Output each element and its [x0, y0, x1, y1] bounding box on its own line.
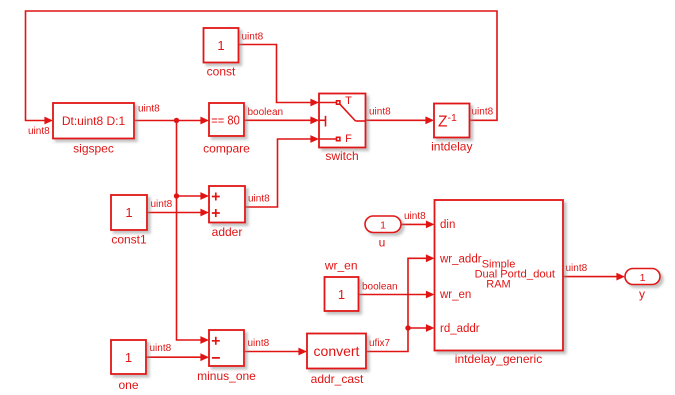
- svg-text:sigspec: sigspec: [73, 142, 114, 156]
- wire sigspec->compare: [134, 117, 209, 125]
- wire u->RAM din: [401, 221, 435, 229]
- wire switch->intdelay: [366, 116, 435, 124]
- node junction on sigspec output: [174, 118, 179, 123]
- block compare: [203, 103, 250, 156]
- svg-text:adder: adder: [212, 225, 243, 239]
- svg-text:wr_en: wr_en: [439, 289, 471, 301]
- svg-text:din: din: [440, 219, 455, 231]
- wire one->minus_one: [146, 353, 209, 361]
- wire feedback loop intdelay->sigspec: [26, 11, 498, 124]
- node junction rd_addr: [405, 325, 410, 330]
- wire adder->switch F input: [245, 135, 319, 207]
- svg-text:rd_addr: rd_addr: [440, 323, 480, 335]
- block minus_one: [197, 330, 256, 383]
- svg-text:convert: convert: [314, 343, 360, 359]
- svg-text:uint8: uint8: [404, 211, 426, 222]
- svg-text:wr_en: wr_en: [324, 259, 358, 273]
- svg-text:uint8: uint8: [566, 263, 588, 274]
- wire const->switch T input: [239, 45, 320, 107]
- svg-text:uint8: uint8: [369, 107, 391, 118]
- svg-text:uint8: uint8: [248, 338, 270, 349]
- svg-text:RAM: RAM: [486, 279, 510, 291]
- block intdelay_generic RAM: [435, 200, 564, 366]
- svg-text:d_dout: d_dout: [521, 269, 556, 281]
- block switch: [319, 94, 366, 164]
- svg-text:const: const: [207, 65, 236, 79]
- block sigspec: [53, 103, 134, 156]
- svg-text:wr_addr: wr_addr: [439, 253, 482, 265]
- svg-text:ufix7: ufix7: [369, 338, 391, 349]
- wire branch to adder input1: [177, 192, 210, 200]
- wire RAM->y: [563, 273, 625, 281]
- svg-text:boolean: boolean: [362, 282, 398, 293]
- svg-text:1: 1: [338, 287, 345, 302]
- svg-text:uint8: uint8: [138, 104, 160, 115]
- svg-text:intdelay: intdelay: [431, 140, 472, 154]
- inport u: [365, 216, 401, 250]
- svg-text:1: 1: [217, 38, 224, 53]
- block addr_cast convert: [307, 334, 366, 387]
- block const1: [111, 195, 147, 247]
- wire wr_en const->RAM wr_en: [359, 291, 435, 299]
- svg-text:1: 1: [125, 350, 132, 365]
- block intdelay: [431, 104, 472, 154]
- svg-text:== 80: == 80: [211, 113, 240, 127]
- node junction to adder: [174, 193, 179, 198]
- wire minus_one->convert: [244, 348, 307, 356]
- svg-text:uint8: uint8: [150, 343, 172, 354]
- svg-text:y: y: [639, 287, 645, 301]
- block const: [204, 28, 239, 79]
- svg-text:boolean: boolean: [248, 107, 284, 118]
- block wr_en constant: [324, 259, 359, 311]
- svg-text:1: 1: [125, 205, 132, 220]
- svg-text:switch: switch: [325, 149, 358, 163]
- svg-text:T: T: [345, 95, 352, 107]
- svg-text:Dt:uint8 D:1: Dt:uint8 D:1: [62, 114, 126, 128]
- block one: [111, 340, 146, 392]
- svg-text:uint8: uint8: [151, 199, 173, 210]
- wire const1->adder input2: [147, 209, 209, 217]
- svg-text:compare: compare: [203, 142, 250, 156]
- svg-text:uint8: uint8: [472, 107, 494, 118]
- outport y: [625, 269, 660, 302]
- block adder: [209, 186, 245, 239]
- svg-text:F: F: [345, 133, 352, 145]
- svg-text:const1: const1: [111, 233, 147, 247]
- svg-text:minus_one: minus_one: [197, 369, 256, 383]
- svg-text:addr_cast: addr_cast: [311, 372, 364, 386]
- svg-text:u: u: [379, 236, 386, 250]
- svg-text:intdelay_generic: intdelay_generic: [455, 352, 542, 366]
- svg-text:one: one: [118, 378, 138, 392]
- wire trunk down to minus_one: [177, 121, 210, 344]
- svg-text:uint8: uint8: [248, 194, 270, 205]
- svg-text:uint8: uint8: [28, 126, 50, 137]
- svg-text:uint8: uint8: [242, 32, 264, 43]
- wire convert->RAM rd_addr and wr_addr: [366, 254, 435, 351]
- svg-text:1: 1: [380, 219, 386, 231]
- svg-text:1: 1: [640, 272, 646, 284]
- wire compare->switch middle: [244, 116, 319, 124]
